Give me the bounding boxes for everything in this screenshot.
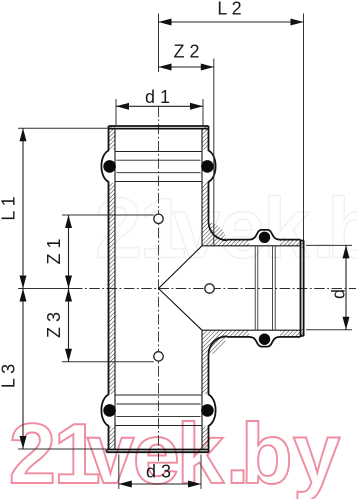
svg-text:Z 3: Z 3 <box>44 312 64 338</box>
svg-text:L 2: L 2 <box>217 0 241 19</box>
svg-text:d 3: d 3 <box>146 462 171 482</box>
svg-text:L 1: L 1 <box>0 196 19 220</box>
svg-text:Z 1: Z 1 <box>44 238 64 264</box>
svg-text:L 3: L 3 <box>0 364 19 388</box>
svg-text:d: d <box>329 289 349 299</box>
svg-text:21vek.by: 21vek.by <box>95 182 358 277</box>
svg-text:d 1: d 1 <box>145 87 170 107</box>
svg-text:Z 2: Z 2 <box>173 42 199 62</box>
